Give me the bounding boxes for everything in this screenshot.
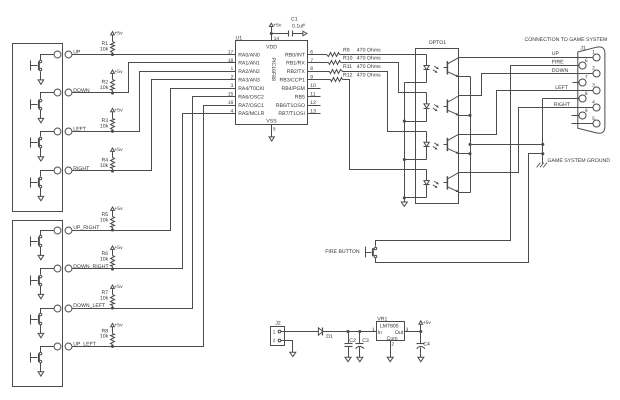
diode D1 xyxy=(318,328,333,341)
resistor R10 470 Ohms xyxy=(308,61,341,65)
svg-text:C2: C2 xyxy=(349,338,356,344)
LED of opto channel 3 xyxy=(424,132,430,160)
junction dot C4 xyxy=(419,330,422,333)
junction dot R1 xyxy=(111,53,114,56)
label R7 value xyxy=(100,290,109,301)
svg-text:10k: 10k xyxy=(100,85,109,91)
svg-text:9: 9 xyxy=(585,108,588,114)
wire R11 to opto LED3 xyxy=(343,72,427,132)
ground xyxy=(38,372,44,376)
svg-text:RB0/INT: RB0/INT xyxy=(285,52,306,58)
resistor R3 10k pull-up xyxy=(111,112,115,132)
power +5v for R8 xyxy=(111,323,124,329)
switch FIRE BUTTON xyxy=(366,247,377,258)
wire R9 to opto LED1 xyxy=(340,54,427,56)
svg-text:10k: 10k xyxy=(100,217,109,223)
junction dot R4 xyxy=(111,169,114,172)
svg-text:10k: 10k xyxy=(100,47,109,53)
resistor R1 10k pull-up xyxy=(111,35,115,55)
svg-text:+5v: +5v xyxy=(114,108,123,114)
light arrows channel 1 xyxy=(433,66,439,73)
wire DOWN_RIGHT to RA5 xyxy=(72,114,236,269)
phototransistor Q2 xyxy=(444,96,460,116)
switch S2 xyxy=(31,93,54,119)
svg-text:10k: 10k xyxy=(100,334,109,340)
svg-text:2: 2 xyxy=(592,66,595,72)
svg-text:VSS: VSS xyxy=(266,119,277,125)
svg-text:VDD: VDD xyxy=(266,45,277,51)
svg-text:C1: C1 xyxy=(291,17,298,23)
svg-text:+5v: +5v xyxy=(114,31,123,37)
power +5v for R3 xyxy=(111,108,124,114)
svg-text:UP: UP xyxy=(552,51,560,57)
capacitor C1 0.1uF xyxy=(272,17,306,37)
svg-text:+5v: +5v xyxy=(423,320,432,326)
wire game ground vertical / to J1 pin8 xyxy=(543,99,580,164)
wire J2 pin1 to D1 xyxy=(281,331,319,333)
svg-text:RB1/RX: RB1/RX xyxy=(286,61,305,67)
junction dot VDD/C1 xyxy=(270,32,273,35)
svg-text:RIGHT: RIGHT xyxy=(73,166,90,172)
cathode wire channel 3 xyxy=(405,159,427,161)
label R4 value xyxy=(100,158,109,170)
wire UP_LEFT to RA7 xyxy=(72,106,236,347)
ground VSS xyxy=(269,137,274,141)
svg-text:470 Ohms: 470 Ohms xyxy=(357,56,381,62)
svg-text:RB3/CCP1: RB3/CCP1 xyxy=(280,78,305,84)
switch S8 xyxy=(31,347,54,372)
wire RIGHT to RA3 xyxy=(72,80,236,171)
svg-text:+5v: +5v xyxy=(114,323,123,329)
svg-text:2: 2 xyxy=(231,75,234,81)
resistor R9 470 Ohms xyxy=(308,53,340,57)
junction dot R7 xyxy=(111,306,114,309)
svg-text:3: 3 xyxy=(231,83,234,89)
svg-text:RA7/OSC1: RA7/OSC1 xyxy=(238,103,264,109)
ground C3 xyxy=(357,357,363,361)
capacitor C2 xyxy=(345,332,357,358)
pin 6 RB0/INT xyxy=(285,49,313,58)
svg-text:16: 16 xyxy=(228,100,234,106)
pin 4 RA5/MCLR xyxy=(231,108,265,117)
wire UP to RA0 xyxy=(72,54,236,56)
ground xyxy=(38,157,44,161)
svg-text:GAME SYSTEM GROUND: GAME SYSTEM GROUND xyxy=(548,158,611,164)
resistor R4 10k pull-up xyxy=(111,152,115,171)
label R1 value xyxy=(100,41,109,53)
wire FIRE button return to game ground xyxy=(376,154,543,263)
svg-text:R11: R11 xyxy=(343,64,352,70)
svg-text:CONNECTION TO GAME SYSTEM: CONNECTION TO GAME SYSTEM xyxy=(525,37,608,43)
resistor R6 10k pull-up xyxy=(111,250,115,269)
capacitor C4 (polarized) xyxy=(417,332,431,358)
svg-text:DOWN: DOWN xyxy=(552,68,569,74)
node S7 pin xyxy=(54,305,72,312)
wire collector1 to J1 pin1 (UP) xyxy=(459,57,593,59)
wire emitter rail xyxy=(459,77,471,193)
svg-text:R12: R12 xyxy=(343,73,353,79)
junction dots game ground xyxy=(541,143,544,155)
pin 3 RA4/T0CKI xyxy=(231,83,265,92)
power +5v for R4 xyxy=(111,147,124,153)
svg-text:OPTO1: OPTO1 xyxy=(429,40,447,46)
pin 18 RA1/AN1 xyxy=(228,58,260,67)
svg-text:C4: C4 xyxy=(423,342,430,348)
svg-text:1: 1 xyxy=(372,327,375,333)
svg-text:+5v: +5v xyxy=(114,284,123,290)
svg-text:10k: 10k xyxy=(100,163,109,169)
J1 pin 7 xyxy=(579,75,588,86)
svg-text:5: 5 xyxy=(592,116,595,122)
junction dot R2 xyxy=(111,91,114,94)
joystick switch box 2 xyxy=(13,221,63,387)
J1 pin 1 xyxy=(592,50,600,61)
pin 2 RA3/AN3 xyxy=(231,75,260,84)
wire collector3 to J1 pin3 (LEFT) xyxy=(459,91,593,135)
svg-text:RA3/AN3: RA3/AN3 xyxy=(238,78,260,84)
connector J2 xyxy=(271,321,285,346)
junction dot R3 xyxy=(111,130,114,133)
ground xyxy=(38,255,44,259)
junction dots cathode rail xyxy=(403,120,406,200)
svg-text:6: 6 xyxy=(585,58,588,64)
joystick switch box 1 xyxy=(13,44,63,212)
J1 pin 8 xyxy=(579,91,588,102)
J1 pin 9 stub xyxy=(572,115,580,117)
svg-text:10k: 10k xyxy=(100,295,109,301)
svg-text:C3: C3 xyxy=(362,338,369,344)
resistor R7 10k pull-up xyxy=(111,289,115,309)
J1 pin 9 xyxy=(579,108,588,119)
pin 7 RB1/RX xyxy=(286,58,313,67)
svg-text:RB7/T1OSI: RB7/T1OSI xyxy=(278,111,305,117)
label R12 470 Ohms xyxy=(343,73,381,79)
power +5v VDD xyxy=(269,22,282,28)
pin 14 VDD wire xyxy=(272,27,280,43)
IC U1 PIC16F88 microcontroller body xyxy=(236,41,308,125)
pin 10 RB4/PGM xyxy=(282,83,321,92)
svg-text:18: 18 xyxy=(228,58,234,64)
resistor R5 10k pull-up xyxy=(111,211,115,231)
phototransistor Q4 xyxy=(444,172,460,192)
svg-text:RA5/MCLR: RA5/MCLR xyxy=(238,111,264,117)
svg-text:4: 4 xyxy=(231,108,234,114)
svg-text:RIGHT: RIGHT xyxy=(554,102,571,108)
junction dot R5 xyxy=(111,228,114,231)
junction dot R8 xyxy=(111,345,114,348)
node S5 pin xyxy=(54,227,72,234)
svg-text:RA1/AN1: RA1/AN1 xyxy=(238,61,260,67)
svg-text:RB5: RB5 xyxy=(295,94,305,100)
label R5 value xyxy=(100,212,109,223)
switch S7 xyxy=(31,309,54,334)
pin 11 RB5 xyxy=(295,92,321,101)
wire J2 pin2 to ground xyxy=(281,341,293,353)
node S3 pin xyxy=(54,128,72,135)
resistor R8 10k pull-up xyxy=(111,327,115,347)
phototransistor Q1 xyxy=(444,57,460,77)
J1 pin 4 xyxy=(592,100,600,111)
wire VR1 out to +5v xyxy=(405,325,421,332)
power +5v for R7 xyxy=(111,284,124,290)
wire R10 to opto LED2 xyxy=(341,63,427,93)
svg-text:1: 1 xyxy=(592,50,595,56)
phototransistor Q3 xyxy=(444,134,460,154)
J1 pin 2 xyxy=(592,66,600,78)
wire UP_RIGHT to RA4 xyxy=(72,89,236,231)
svg-text:RA0/AN0: RA0/AN0 xyxy=(238,52,260,58)
svg-text:+5v: +5v xyxy=(114,147,123,153)
label R11 470 Ohms xyxy=(343,64,381,70)
ground xyxy=(38,196,44,200)
wire DOWN to RA1 xyxy=(72,63,236,93)
node S6 pin xyxy=(54,265,72,272)
capacitor C3 (polarized) xyxy=(356,332,369,358)
switch S4 xyxy=(31,171,54,197)
wire emitter rail to game ground xyxy=(471,144,543,146)
junction dot R6 xyxy=(111,267,114,270)
power +5v for R6 xyxy=(111,245,124,251)
pin 13 RB7/T1OSI xyxy=(278,108,320,117)
svg-text:4: 4 xyxy=(592,100,595,106)
svg-text:LM7805: LM7805 xyxy=(380,323,399,329)
svg-text:Com: Com xyxy=(387,336,398,342)
svg-text:10k: 10k xyxy=(100,123,109,129)
svg-text:+5v: +5v xyxy=(273,22,282,28)
junction dots C2 C3 xyxy=(346,330,361,333)
J1 pin 3 xyxy=(592,83,600,95)
svg-text:LEFT: LEFT xyxy=(555,85,569,91)
ground VR1 xyxy=(387,357,393,361)
svg-text:RA6/OSC2: RA6/OSC2 xyxy=(238,94,264,100)
svg-text:470 Ohms: 470 Ohms xyxy=(357,47,381,53)
cathode wire channel 2 xyxy=(405,121,427,123)
svg-text:DOWN: DOWN xyxy=(73,88,90,94)
switch S1 xyxy=(31,55,54,80)
svg-text:D1: D1 xyxy=(326,334,333,340)
label R2 value xyxy=(100,80,109,92)
pin 5 VSS wire xyxy=(272,125,276,137)
ground for opto LEDs xyxy=(401,202,407,206)
svg-text:FIRE BUTTON: FIRE BUTTON xyxy=(325,249,360,255)
svg-text:10k: 10k xyxy=(100,256,109,262)
J1 pin 5 stub xyxy=(572,123,593,125)
wire LED cathode rail xyxy=(404,83,406,203)
svg-text:17: 17 xyxy=(228,49,234,55)
LED of opto channel 1 xyxy=(424,55,430,83)
label R10 470 Ohms xyxy=(343,56,381,62)
svg-text:RB4/PGM: RB4/PGM xyxy=(282,86,305,92)
light arrows channel 3 xyxy=(433,143,439,150)
switch S3 xyxy=(31,132,54,157)
node S2 pin xyxy=(54,89,72,96)
light arrows channel 4 xyxy=(433,181,439,188)
svg-text:470 Ohms: 470 Ohms xyxy=(357,73,381,79)
ground xyxy=(38,118,44,122)
svg-text:2: 2 xyxy=(391,341,394,347)
svg-text:2: 2 xyxy=(273,338,276,344)
LED of opto channel 2 xyxy=(424,93,430,122)
svg-text:RB2/TX: RB2/TX xyxy=(287,69,306,75)
svg-text:RA4/T0CKI: RA4/T0CKI xyxy=(238,86,264,92)
ground (right arrow) for C1 xyxy=(303,31,307,36)
svg-text:1: 1 xyxy=(231,66,234,72)
svg-text:5: 5 xyxy=(273,126,276,132)
VR1 pin2 to ground xyxy=(391,341,395,358)
svg-text:RA2/AN2: RA2/AN2 xyxy=(238,69,260,75)
pin 8 RB2/TX xyxy=(287,66,314,75)
label R3 value xyxy=(100,118,109,130)
chassis ground GAME SYSTEM GROUND xyxy=(537,163,547,168)
cathode wire channel 4 xyxy=(405,197,427,199)
svg-text:RB6/T1OSO: RB6/T1OSO xyxy=(276,103,305,109)
switch S6 xyxy=(31,269,54,295)
resistor R2 10k pull-up xyxy=(111,74,115,93)
svg-text:3: 3 xyxy=(406,327,409,333)
LED of opto channel 4 xyxy=(424,170,430,198)
svg-text:3: 3 xyxy=(592,83,595,89)
label R8 value xyxy=(100,329,109,340)
svg-text:+5v: +5v xyxy=(114,245,123,251)
pin 1 RA2/AN2 xyxy=(231,66,260,75)
J1 pin 7 stub xyxy=(573,82,580,84)
svg-text:In: In xyxy=(378,330,382,336)
voltage regulator VR1 LM7805 xyxy=(372,316,409,341)
wire LEFT to RA2 xyxy=(72,72,236,132)
node S8 pin xyxy=(54,343,72,350)
node S4 pin xyxy=(54,167,72,174)
wire DOWN_LEFT to RA6 xyxy=(72,97,236,309)
pin 12 RB6/T1OSO xyxy=(276,100,321,109)
svg-text:VR1: VR1 xyxy=(377,316,387,322)
wire R12 to opto LED4 xyxy=(343,80,427,170)
svg-text:DOWN_RIGHT: DOWN_RIGHT xyxy=(73,264,109,270)
svg-text:R10: R10 xyxy=(343,56,353,62)
svg-text:+5v: +5v xyxy=(114,69,123,75)
power +5v for R5 xyxy=(111,206,124,212)
label R9 470 Ohms xyxy=(343,47,381,53)
power +5v for R2 xyxy=(111,69,124,75)
resistor R12 470 Ohms xyxy=(308,78,343,82)
connector J1 DB9 outline xyxy=(578,47,605,133)
power +5v output xyxy=(419,320,432,326)
wire D1 to VR1 xyxy=(323,331,377,333)
svg-text:0.1uF: 0.1uF xyxy=(292,24,305,30)
svg-text:PIC16F88: PIC16F88 xyxy=(270,58,276,81)
pin 9 RB3/CCP1 xyxy=(280,75,314,84)
power +5v for R1 xyxy=(111,31,124,37)
svg-text:J1: J1 xyxy=(580,45,586,51)
wire collector4 to J1 pin4 (RIGHT) xyxy=(459,108,593,173)
svg-text:14: 14 xyxy=(274,36,280,42)
svg-text:J2: J2 xyxy=(275,321,281,327)
ground xyxy=(38,333,44,337)
ground xyxy=(38,80,44,84)
svg-text:7: 7 xyxy=(585,75,588,81)
resistor R11 470 Ohms xyxy=(308,70,343,74)
junction dots emitter rail xyxy=(468,114,471,155)
switch S5 xyxy=(31,231,54,256)
svg-text:15: 15 xyxy=(228,92,234,98)
label R6 value xyxy=(100,251,109,262)
svg-text:U1: U1 xyxy=(236,36,243,42)
svg-text:FIRE: FIRE xyxy=(552,59,564,65)
ground C2 xyxy=(345,357,351,361)
svg-text:1: 1 xyxy=(273,329,276,335)
ground C4 xyxy=(418,357,424,361)
node S1 pin xyxy=(54,51,72,58)
pin 17 RA0/AN0 xyxy=(228,49,260,58)
svg-text:8: 8 xyxy=(585,91,588,97)
wire collector2 to J1 pin2 (DOWN) xyxy=(459,74,593,96)
svg-text:R9: R9 xyxy=(343,47,350,53)
ground xyxy=(38,294,44,298)
wire FIRE button to J1 pin6 xyxy=(376,66,580,247)
J1 pin 6 xyxy=(579,58,588,69)
svg-text:+5v: +5v xyxy=(114,206,123,212)
svg-text:470 Ohms: 470 Ohms xyxy=(357,64,381,70)
cathode wire channel 1 xyxy=(405,82,427,84)
J1 pin 5 xyxy=(592,116,600,127)
ground J2 xyxy=(290,352,296,356)
pin 15 RA6/OSC2 xyxy=(228,92,264,101)
pin 16 RA7/OSC1 xyxy=(228,100,264,109)
light arrows channel 2 xyxy=(433,104,439,111)
optocoupler OPTO1 body xyxy=(416,49,459,204)
